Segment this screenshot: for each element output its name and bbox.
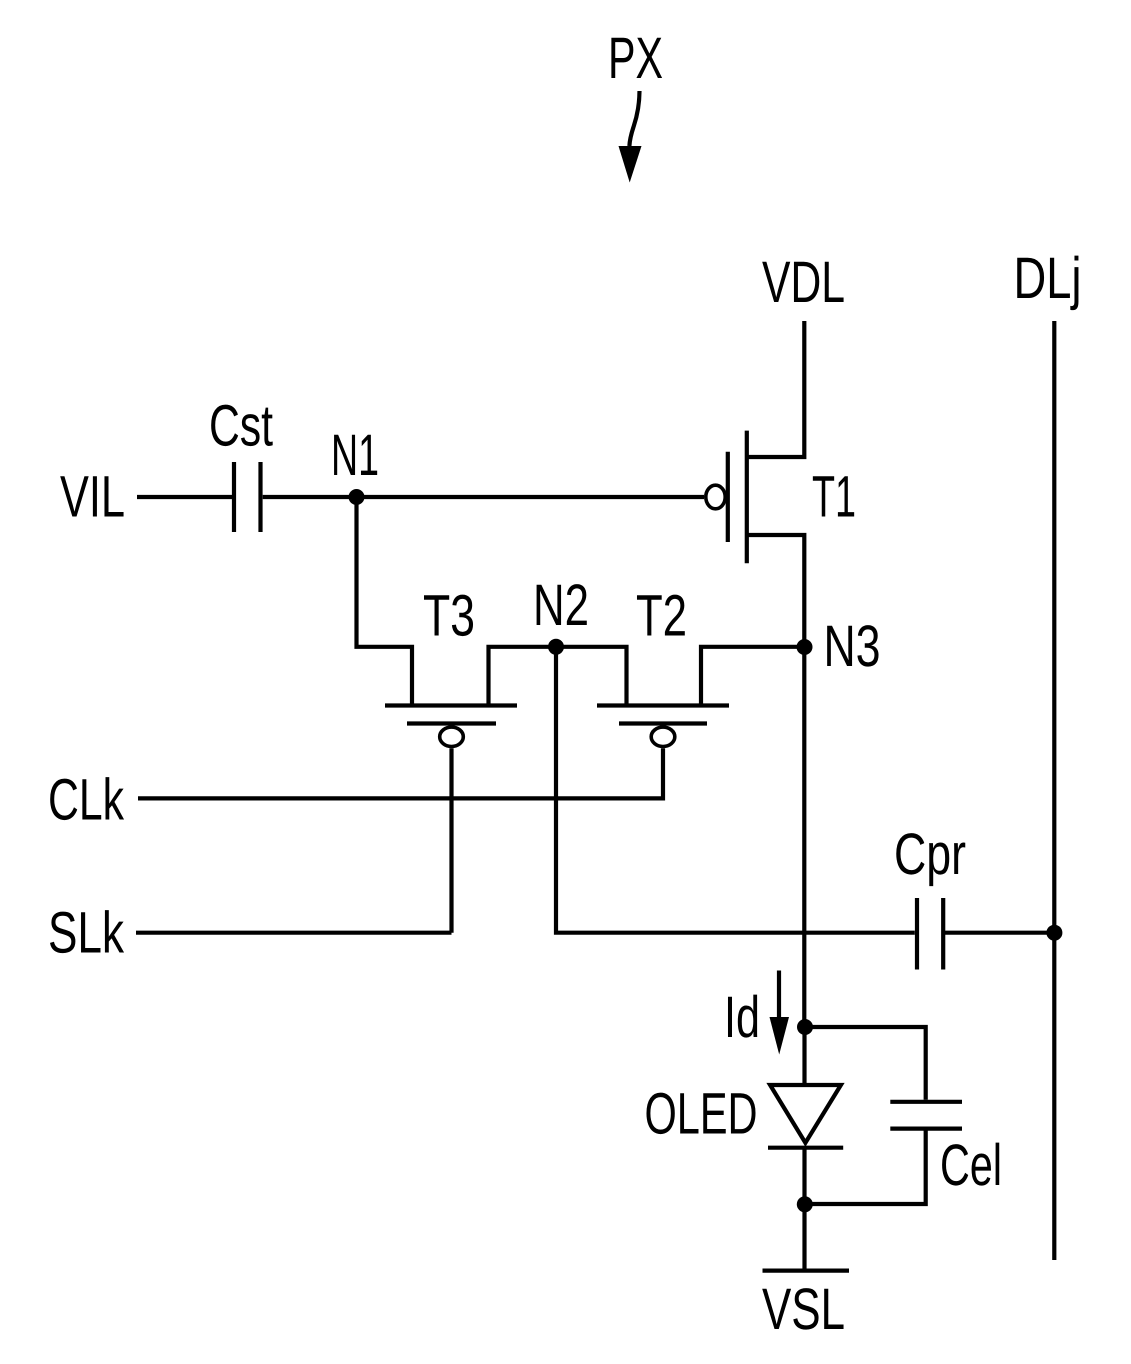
capacitor Cst: [234, 462, 261, 532]
label Id: [728, 995, 757, 1038]
transistor T1: [706, 431, 747, 564]
node anode junction: [797, 1019, 813, 1035]
power rail VSL bar: [763, 1268, 850, 1272]
capacitor Cel: [890, 1102, 962, 1129]
wire node N2 to T2: [556, 647, 627, 704]
node N1: [349, 489, 365, 505]
label T1: [813, 476, 854, 516]
label N1: [334, 435, 377, 475]
wire Cst to node N1: [263, 495, 356, 499]
wire T3 to node N2: [489, 647, 557, 704]
label N3: [827, 625, 878, 666]
wire node N2 down and right to Cpr: [556, 647, 915, 933]
transistor T2: [597, 706, 729, 747]
label Cst: [211, 405, 273, 446]
capacitor Cpr: [917, 898, 943, 970]
wire T3 gate down to SLk: [449, 748, 453, 932]
wire N1 down to T3: [357, 497, 413, 704]
wire anode node to Cel top: [805, 1027, 926, 1100]
label VSL: [762, 1288, 843, 1329]
wire CLk to T2 gate: [138, 748, 663, 798]
wire cathode node to VSL: [802, 1204, 806, 1270]
label T2: [637, 595, 685, 636]
label OLED: [646, 1093, 755, 1134]
node N2: [548, 639, 564, 655]
wire OLED cathode to node: [802, 1148, 806, 1205]
label T3: [424, 595, 473, 636]
wire T1 source to node N3: [747, 535, 805, 647]
label VDL: [762, 262, 843, 302]
wire VDL lead to T1 drain: [747, 321, 805, 457]
wire T2 to node N3: [701, 647, 805, 704]
label VIL: [60, 476, 123, 516]
wire VIL to Cst: [137, 495, 232, 499]
diode OLED: [768, 1085, 843, 1148]
wire data line DLj vertical: [1052, 321, 1056, 1260]
label Cel: [942, 1143, 999, 1186]
transistor T3: [385, 706, 517, 747]
wire node N3 down to OLED node: [802, 647, 806, 1027]
current arrow Id: [770, 971, 790, 1055]
label CLk: [50, 777, 124, 820]
wire anode node to OLED: [802, 1027, 806, 1085]
label N2: [537, 584, 587, 625]
label SLk: [50, 910, 124, 953]
wire Cpr to DLj: [943, 931, 1054, 935]
label Cpr: [896, 833, 965, 886]
label PX: [611, 38, 662, 78]
label DLj: [1017, 256, 1078, 311]
wire Cel bottom to cathode node: [805, 1129, 926, 1204]
PX pointer arrow: [619, 91, 642, 183]
node N3: [797, 639, 813, 655]
wire node N1 to T1 gate: [356, 495, 704, 499]
wire SLk to T3 gate: [136, 931, 452, 935]
node on DLj: [1046, 925, 1062, 941]
node cathode junction: [797, 1196, 813, 1212]
